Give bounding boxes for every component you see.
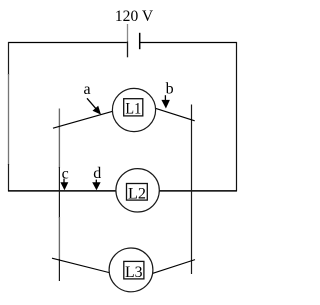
wire top-right (battery to right rail) <box>140 42 237 44</box>
wire left rail lower segment <box>8 164 10 191</box>
node a arrow <box>87 98 101 114</box>
wire L1 left lead <box>53 111 113 128</box>
svg-text:L2: L2 <box>128 186 146 203</box>
wire L2 row left <box>8 190 116 192</box>
wire mid-left rail segment 2 <box>58 167 60 218</box>
wire mid-left rail segment 1 <box>58 109 60 169</box>
node d arrow <box>92 180 100 191</box>
wire left rail middle segment <box>8 74 10 165</box>
lamp L1 <box>112 88 155 131</box>
wire mid-left rail segment 4 <box>58 259 60 281</box>
wire left rail upper segment <box>8 42 10 75</box>
lamp L3 <box>109 248 153 292</box>
wire L3 left lead <box>52 258 110 273</box>
wire L1 right lead <box>155 108 194 121</box>
wire mid-left rail segment 3 <box>58 217 60 260</box>
wire right rail <box>236 42 238 191</box>
node c arrow <box>60 179 68 191</box>
wire L3 right lead <box>152 260 195 274</box>
svg-text:b: b <box>166 81 174 98</box>
wire mid-right rail <box>191 105 193 275</box>
svg-text:c: c <box>62 165 69 182</box>
wire L2 row right <box>159 190 237 192</box>
battery B1 short plate <box>139 33 141 49</box>
svg-text:120 V: 120 V <box>115 8 154 25</box>
node b arrow <box>161 95 170 108</box>
svg-text:L3: L3 <box>125 264 143 281</box>
svg-text:d: d <box>93 165 101 182</box>
svg-text:a: a <box>84 81 91 98</box>
lamp L2 <box>116 169 159 212</box>
svg-text:L1: L1 <box>125 101 141 118</box>
battery B1 long plate <box>127 24 129 42</box>
wire top-left (battery to left rail) <box>8 42 127 44</box>
